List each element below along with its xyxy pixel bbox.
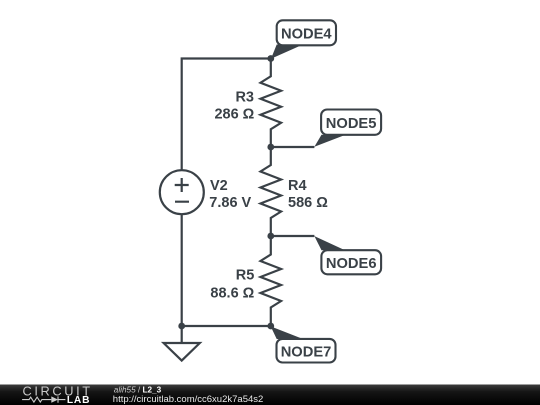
wire from V2 negative terminal down and right to node NODE7 — [182, 214, 271, 326]
label V2 value — [209, 178, 251, 211]
label R3 value — [214, 90, 254, 123]
svg-text:NODE5: NODE5 — [326, 116, 377, 132]
node NODE4 callout — [271, 20, 336, 59]
junction dot ground node — [178, 323, 185, 330]
svg-text:R4: R4 — [288, 178, 307, 194]
svg-text:NODE4: NODE4 — [281, 26, 332, 42]
junction dot node D bottom — [267, 323, 274, 330]
node NODE6 callout — [314, 236, 381, 274]
resistor R4 — [261, 147, 282, 236]
junction dot node C — [267, 233, 274, 240]
svg-text:R3: R3 — [235, 90, 254, 106]
voltage source V2 — [160, 170, 204, 214]
svg-text:NODE7: NODE7 — [281, 345, 332, 361]
label R4 value — [288, 178, 328, 211]
svg-text:LAB: LAB — [67, 395, 90, 405]
logo diode triangle — [51, 396, 58, 402]
ground — [164, 326, 200, 361]
svg-text:586 Ω: 586 Ω — [288, 195, 328, 211]
resistor R3 — [261, 59, 282, 148]
logo mini schematic (resistor and diode) — [22, 396, 65, 402]
resistor R5 — [261, 236, 282, 326]
node NODE7 callout — [271, 326, 336, 362]
svg-text:http://circuitlab.com/cc6xu2k7: http://circuitlab.com/cc6xu2k7a54s2 — [113, 394, 263, 405]
footer bar — [0, 385, 540, 405]
wire to NODE5 — [271, 146, 315, 148]
node NODE5 callout — [314, 110, 381, 147]
svg-text:88.6 Ω: 88.6 Ω — [210, 285, 254, 301]
wire to NODE6 — [271, 235, 315, 237]
svg-text:NODE6: NODE6 — [326, 256, 377, 272]
svg-text:V2: V2 — [210, 178, 228, 194]
junction dot node A top — [267, 55, 274, 62]
junction dot node B — [267, 144, 274, 151]
label R5 value — [210, 268, 254, 302]
wire from node NODE4 left and down to V2 positive terminal — [182, 59, 271, 171]
svg-text:R5: R5 — [236, 268, 255, 284]
svg-text:7.86 V: 7.86 V — [209, 195, 251, 211]
svg-text:286 Ω: 286 Ω — [214, 107, 254, 123]
